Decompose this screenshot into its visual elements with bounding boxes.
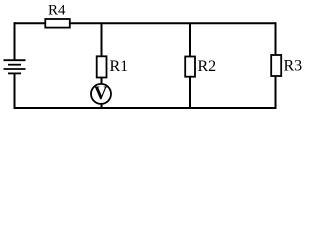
svg-text:R2: R2	[198, 58, 217, 75]
svg-text:R1: R1	[110, 58, 129, 75]
svg-text:R4: R4	[48, 2, 66, 18]
svg-text:V: V	[94, 83, 108, 104]
svg-text:R3: R3	[284, 58, 303, 75]
